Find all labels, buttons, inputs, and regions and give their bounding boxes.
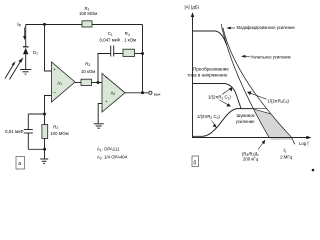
svg-text:100 МОм: 100 МОм	[79, 11, 97, 16]
axis Y arrowhead	[191, 12, 194, 17]
svg-text:усиление: усиление	[236, 119, 255, 124]
resistor R2	[42, 125, 48, 139]
svg-text:fс: fс	[284, 148, 287, 154]
wire A1 inverting input down	[45, 96, 52, 115]
svg-text:0,01 мкФ: 0,01 мкФ	[5, 129, 24, 134]
wire photodiode branch	[25, 25, 27, 47]
wire top rail to capacitor	[28, 113, 44, 115]
shaded noise region	[254, 109, 293, 140]
wire to ground	[44, 149, 46, 159]
wire A1 output to R3	[75, 82, 81, 84]
svg-text:Начальное усиление: Начальное усиление	[251, 54, 292, 59]
svg-text:1/(2πR2 C2): 1/(2πR2 C2)	[197, 114, 220, 120]
op-amp A2	[102, 74, 125, 113]
svg-text:а: а	[18, 161, 21, 167]
line noise wedge dip	[252, 109, 271, 114]
hatch lines in shaded region	[258, 110, 291, 140]
svg-text:Iф: Iф	[17, 22, 21, 28]
svg-text:тока в напряжение: тока в напряжение	[187, 73, 228, 78]
wire C1 to R4	[114, 53, 123, 55]
node R2 top rail	[43, 113, 46, 116]
curve current-to-voltage conversion	[193, 84, 241, 109]
capacitor 0.01uF top lead	[27, 114, 29, 130]
curve noise gain	[193, 109, 252, 137]
svg-text:Log f: Log f	[299, 141, 309, 146]
svg-text:вых: вых	[154, 91, 161, 96]
svg-text:−: −	[105, 76, 108, 82]
ground under D1	[20, 70, 31, 75]
resistor R1	[82, 21, 92, 27]
wire R2 top lead	[44, 114, 46, 125]
svg-text:−: −	[53, 91, 56, 97]
wire bottom rail	[28, 148, 44, 150]
node bottom rail	[43, 148, 46, 151]
ink dot bottom right	[312, 169, 315, 172]
wire A2 output	[125, 92, 149, 94]
svg-text:+: +	[105, 99, 108, 104]
svg-text:10 кОм: 10 кОм	[81, 69, 95, 74]
svg-text:1/(2πR4C4): 1/(2πR4C4)	[267, 98, 289, 104]
wire node to A1 noninverting input	[45, 25, 52, 72]
svg-text:200 кГц: 200 кГц	[243, 157, 259, 162]
panel label a box	[16, 157, 25, 170]
wire top feedback line left	[26, 24, 83, 26]
svg-text:100 МОм: 100 МОм	[50, 131, 68, 136]
pointer R1C1 up to conversion knee	[222, 87, 232, 94]
svg-text:R2: R2	[53, 124, 58, 130]
svg-text:1 кОм: 1 кОм	[124, 38, 136, 43]
svg-text:Шумовое: Шумовое	[237, 113, 256, 118]
wire R2 bottom lead	[44, 139, 46, 150]
resistor R3	[81, 79, 92, 85]
svg-text:D1: D1	[33, 50, 38, 56]
wire top feedback line right	[92, 24, 142, 26]
svg-text:A2: 1/4 OPA404: A2: 1/4 OPA404	[97, 155, 128, 161]
svg-text:Модифицированное усиление: Модифицированное усиление	[237, 25, 296, 30]
svg-text:0,047 мкФ: 0,047 мкФ	[100, 38, 121, 43]
svg-text:+: +	[53, 67, 56, 72]
output terminal circle	[149, 91, 152, 94]
svg-text:|A| (дБ): |A| (дБ)	[185, 5, 200, 10]
svg-text:1/(2πR1 C1): 1/(2πR1 C1)	[208, 95, 231, 101]
svg-text:C1: C1	[108, 31, 113, 37]
ground under R2	[40, 159, 48, 163]
pointer modified gain	[226, 27, 235, 30]
svg-text:2 МГц: 2 МГц	[280, 154, 292, 159]
capacitor 0.01uF plates	[24, 129, 33, 131]
curve modified gain flat with knee	[193, 31, 227, 45]
line modified gain asymptote	[221, 24, 269, 137]
wire R3 to A2 inverting input	[92, 82, 103, 84]
panel label b box	[192, 156, 199, 167]
pointer R2C2 down to noise knee	[212, 121, 217, 128]
wire R4 to right vertical	[135, 53, 143, 55]
pointer frequency marker up to axis	[258, 140, 265, 150]
ground under A2	[94, 124, 104, 128]
svg-text:A1: OPA111: A1: OPA111	[97, 147, 120, 153]
photocurrent arrow	[23, 28, 26, 41]
svg-text:R4: R4	[125, 31, 130, 37]
node junction top wire	[43, 23, 46, 26]
line noise plateau continuation	[252, 108, 267, 110]
node feedback junction	[141, 52, 144, 55]
axis X	[192, 137, 309, 139]
capacitor C1 plates	[110, 46, 112, 57]
axis Y	[192, 15, 194, 138]
wire feedback vertical to C1 line	[98, 54, 111, 83]
svg-text:R3: R3	[85, 61, 90, 67]
axis X arrowhead	[306, 136, 311, 140]
svg-text:б: б	[193, 160, 196, 166]
line initial gain	[223, 28, 295, 144]
svg-text:A1: A1	[57, 81, 62, 87]
wire right vertical feedback	[142, 25, 144, 93]
resistor R4	[123, 49, 135, 56]
pointer initial gain	[241, 55, 250, 58]
svg-text:A2: A2	[111, 90, 116, 96]
wire A2 noninverting input to ground	[98, 104, 102, 124]
pointer R1C1 down to noise corner	[220, 100, 232, 107]
op-amp A1	[52, 62, 76, 102]
node A2 inverting input	[97, 81, 100, 84]
node output junction	[141, 91, 144, 94]
svg-text:Преобразование: Преобразование	[193, 66, 229, 71]
wire diode to ground	[25, 54, 27, 69]
light arrows into photodiode	[5, 57, 23, 79]
pointer R4C4 to plateau corner	[247, 91, 267, 99]
photodiode D1	[23, 46, 29, 54]
capacitor 0.01uF bottom lead	[27, 133, 29, 149]
